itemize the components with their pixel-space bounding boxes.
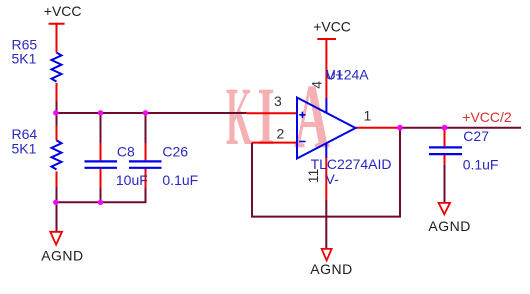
svg-text:5K1: 5K1 bbox=[12, 140, 37, 156]
svg-text:AGND: AGND bbox=[41, 248, 83, 264]
svg-text:0.1uF: 0.1uF bbox=[162, 172, 198, 188]
svg-text:+VCC/2: +VCC/2 bbox=[462, 109, 512, 125]
svg-text:V-: V- bbox=[326, 171, 340, 187]
svg-text:C26: C26 bbox=[162, 144, 188, 160]
svg-text:TLC2274AID: TLC2274AID bbox=[311, 156, 392, 172]
svg-text:V+: V+ bbox=[326, 67, 344, 83]
svg-text:1: 1 bbox=[364, 108, 372, 124]
svg-text:4: 4 bbox=[308, 81, 324, 89]
svg-text:+VCC: +VCC bbox=[313, 18, 351, 34]
svg-text:5K1: 5K1 bbox=[12, 51, 37, 67]
svg-text:AGND: AGND bbox=[428, 218, 470, 234]
svg-text:C27: C27 bbox=[463, 128, 489, 144]
svg-text:10uF: 10uF bbox=[116, 172, 148, 188]
svg-text:2: 2 bbox=[277, 126, 285, 142]
svg-text:0.1uF: 0.1uF bbox=[463, 157, 499, 173]
svg-text:K: K bbox=[226, 71, 252, 163]
svg-text:3: 3 bbox=[274, 93, 282, 109]
svg-text:I: I bbox=[258, 72, 275, 163]
svg-text:AGND: AGND bbox=[310, 261, 352, 277]
svg-text:C8: C8 bbox=[117, 144, 135, 160]
svg-text:+VCC: +VCC bbox=[44, 3, 82, 19]
